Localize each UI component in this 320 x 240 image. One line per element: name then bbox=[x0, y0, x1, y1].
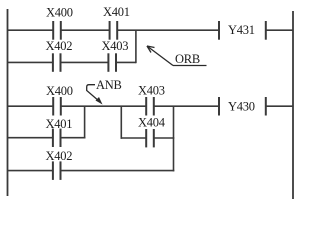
svg-text:ORB: ORB bbox=[175, 52, 200, 66]
wire Y431 to right rail bbox=[266, 29, 293, 31]
coil Y430 bbox=[219, 97, 266, 116]
junction vertical rung2 to X402 branch bbox=[173, 106, 175, 171]
wire X401 branch to junction bbox=[61, 137, 86, 139]
wire rung2 left rail to X400 bbox=[8, 105, 54, 107]
junction vertical rung2 to X404 branch bbox=[120, 106, 122, 139]
svg-text:X401: X401 bbox=[103, 5, 130, 19]
ORB annotation arrow bbox=[147, 46, 207, 66]
contact X402 (branch) bbox=[53, 161, 61, 180]
contact X402 (rung 1 branch) bbox=[53, 53, 61, 72]
coil Y431 bbox=[219, 21, 266, 40]
svg-text:X400: X400 bbox=[46, 84, 73, 98]
svg-text:X402: X402 bbox=[46, 149, 73, 163]
svg-text:X403: X403 bbox=[138, 84, 165, 98]
contact X404 (branch) bbox=[146, 129, 154, 147]
svg-text:ANB: ANB bbox=[96, 78, 122, 92]
contact X400 (rung 2) bbox=[53, 97, 61, 116]
wire X404 branch to right junction bbox=[154, 137, 175, 139]
svg-text:Y431: Y431 bbox=[228, 23, 255, 37]
right power rail bbox=[292, 11, 294, 199]
wire rung2 X400 to X403 bbox=[61, 105, 146, 107]
svg-text:Y430: Y430 bbox=[228, 100, 255, 114]
svg-text:X403: X403 bbox=[102, 39, 129, 53]
contact X403 (rung 2) bbox=[146, 97, 154, 116]
wire X402 branch to right junction bbox=[61, 170, 175, 172]
svg-text:X401: X401 bbox=[46, 117, 73, 131]
wire X402 branch left rail to X402 bbox=[8, 170, 53, 172]
contact X401 (branch) bbox=[53, 129, 61, 147]
svg-text:X400: X400 bbox=[46, 6, 73, 20]
left power rail bbox=[7, 9, 9, 196]
wire rung1b X402 to X403 bbox=[61, 61, 109, 63]
wire rung1b left rail to X402 bbox=[8, 61, 53, 63]
wire X401 branch left rail to X401 bbox=[8, 137, 53, 139]
wire rung2 X403 to coil Y430 bbox=[154, 105, 219, 107]
wire rung1a X401 to coil Y431 bbox=[117, 29, 219, 31]
OR branch vertical junction bbox=[135, 30, 137, 63]
junction vertical rung2 to X401 branch bbox=[84, 106, 86, 138]
contact X401 (rung 1) bbox=[110, 21, 118, 40]
svg-text:X402: X402 bbox=[46, 39, 73, 53]
wire X404 branch from junction bbox=[121, 137, 147, 139]
wire rung1b X403 to OR junction bbox=[116, 61, 136, 63]
wire rung1a X400 to X401 bbox=[61, 29, 110, 31]
wire rung1a left rail to X400 bbox=[8, 29, 54, 31]
svg-text:X404: X404 bbox=[138, 116, 166, 130]
contact X400 (rung 1) bbox=[53, 21, 61, 40]
ANB annotation arrow bbox=[87, 85, 100, 102]
contact X403 (rung 1 branch) bbox=[108, 53, 116, 72]
wire Y430 to right rail bbox=[266, 105, 293, 107]
